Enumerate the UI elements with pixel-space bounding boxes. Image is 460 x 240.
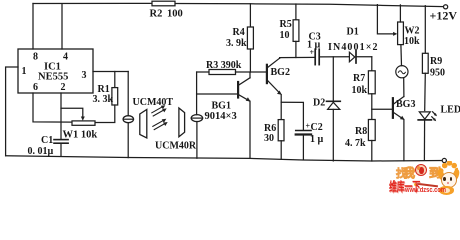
svg-text:10: 10 [280, 30, 290, 41]
svg-text:950: 950 [430, 68, 445, 79]
wire BG2 emitter [280, 95, 282, 120]
svg-text:10k: 10k [352, 85, 368, 96]
svg-text:1: 1 [22, 66, 27, 77]
transistor Q2 BG2 [250, 71, 265, 73]
wire pin6 [33, 93, 72, 122]
resistor R1 [114, 72, 116, 88]
svg-text:3. 9k: 3. 9k [226, 38, 247, 49]
wire pin1 to ground [6, 67, 18, 156]
wire pin2 tap to W1 wiper [61, 108, 83, 117]
node +12V terminal [444, 5, 448, 9]
svg-text:BG3: BG3 [396, 99, 415, 110]
node W1 wiper arrowhead [81, 117, 85, 121]
LED emission arrows [433, 112, 436, 115]
wire emitter to C2 [281, 102, 303, 130]
svg-text:NE555: NE555 [38, 71, 68, 82]
svg-text:R2: R2 [150, 9, 163, 20]
buzzer B AC source circle [396, 66, 408, 78]
svg-text:30: 30 [264, 133, 274, 144]
capacitor C3 [314, 49, 316, 64]
wire UCM40T [127, 72, 129, 116]
svg-text:UCM40R: UCM40R [155, 141, 197, 152]
node ground terminal [442, 158, 446, 162]
mascot body [439, 186, 454, 195]
svg-text:W1 10k: W1 10k [63, 129, 98, 140]
mascot crown spikes [439, 161, 458, 174]
svg-text:1 µ: 1 µ [307, 39, 321, 50]
wire pin3 output [93, 71, 128, 73]
resistor R9 [424, 6, 426, 54]
capacitor C2 [296, 130, 311, 132]
wire R7 R8 node to BG3 base [372, 108, 392, 110]
wave arrows upper [152, 105, 167, 116]
transducer UCM40R disc [191, 115, 202, 122]
diode D2 [332, 57, 334, 101]
svg-text:C1: C1 [41, 135, 53, 146]
capacitor C1 [54, 139, 68, 141]
wire top +12V rail [33, 2, 152, 4]
resistor R7 [371, 57, 373, 71]
svg-text:D1: D1 [347, 27, 359, 38]
red title [389, 176, 420, 195]
wire bottom ground rail [6, 156, 443, 161]
wire pin2 down to C1 [60, 93, 62, 139]
wave arrows lower [153, 119, 168, 130]
svg-text:BG1: BG1 [212, 100, 231, 111]
transistor Q3 BG3 [392, 98, 394, 118]
wand [416, 182, 438, 186]
resistor R2 [152, 1, 175, 6]
mascot face [441, 172, 457, 188]
resistor R4 [249, 4, 251, 27]
svg-text:IN4001×2: IN4001×2 [328, 42, 379, 53]
svg-text:R3 390k: R3 390k [206, 60, 242, 71]
resistor R8 [368, 120, 375, 141]
svg-text:3: 3 [82, 70, 87, 81]
svg-text:R8: R8 [355, 126, 367, 137]
svg-text:6: 6 [33, 82, 38, 93]
op-amp U1 IC1 NE555 box [18, 49, 93, 93]
LED [419, 112, 430, 119]
transducer UCM40T horn [140, 110, 147, 139]
svg-text:R4: R4 [233, 27, 245, 38]
transducer UCM40T disc [123, 116, 133, 123]
svg-text:4: 4 [63, 52, 68, 63]
potentiometer W1 [72, 121, 95, 125]
wire pin8 to rail [32, 4, 34, 50]
svg-text:UCM40T: UCM40T [133, 97, 174, 108]
svg-text:R9: R9 [430, 56, 442, 67]
svg-text:8: 8 [33, 52, 38, 63]
svg-text:4. 7k: 4. 7k [345, 138, 366, 149]
wire BG1 emitter to ground [249, 101, 251, 158]
svg-text:R7: R7 [353, 73, 365, 84]
svg-text:3. 3k: 3. 3k [93, 94, 114, 105]
svg-text:R5: R5 [280, 19, 292, 30]
watermark logo dzsc [385, 152, 460, 195]
resistor R3 [197, 71, 209, 73]
svg-text:BG2: BG2 [271, 67, 290, 78]
resistor R6 [278, 120, 284, 141]
transistor Q1 BG1 [197, 93, 237, 95]
wire pin4 to rail [61, 4, 63, 49]
svg-text:1 µ: 1 µ [310, 134, 324, 145]
svg-text:W2: W2 [405, 26, 420, 37]
transducer UCM40R horn [179, 108, 185, 137]
wire BG2 collector row [280, 56, 315, 59]
svg-text:9014×3: 9014×3 [205, 111, 237, 122]
svg-text:2: 2 [61, 82, 66, 93]
diode D1 [349, 52, 354, 62]
svg-text:0. 01µ: 0. 01µ [28, 146, 54, 157]
resistor R5 [295, 4, 297, 20]
svg-text:+12V: +12V [430, 9, 458, 23]
svg-text:C2: C2 [311, 122, 323, 133]
potentiometer W2 [398, 22, 404, 45]
wire UCM40R [196, 72, 198, 115]
svg-text:LED: LED [441, 105, 460, 116]
red badge [415, 164, 427, 176]
svg-text:10k: 10k [404, 36, 420, 47]
svg-text:100: 100 [167, 9, 183, 20]
svg-text:D2: D2 [313, 97, 325, 108]
